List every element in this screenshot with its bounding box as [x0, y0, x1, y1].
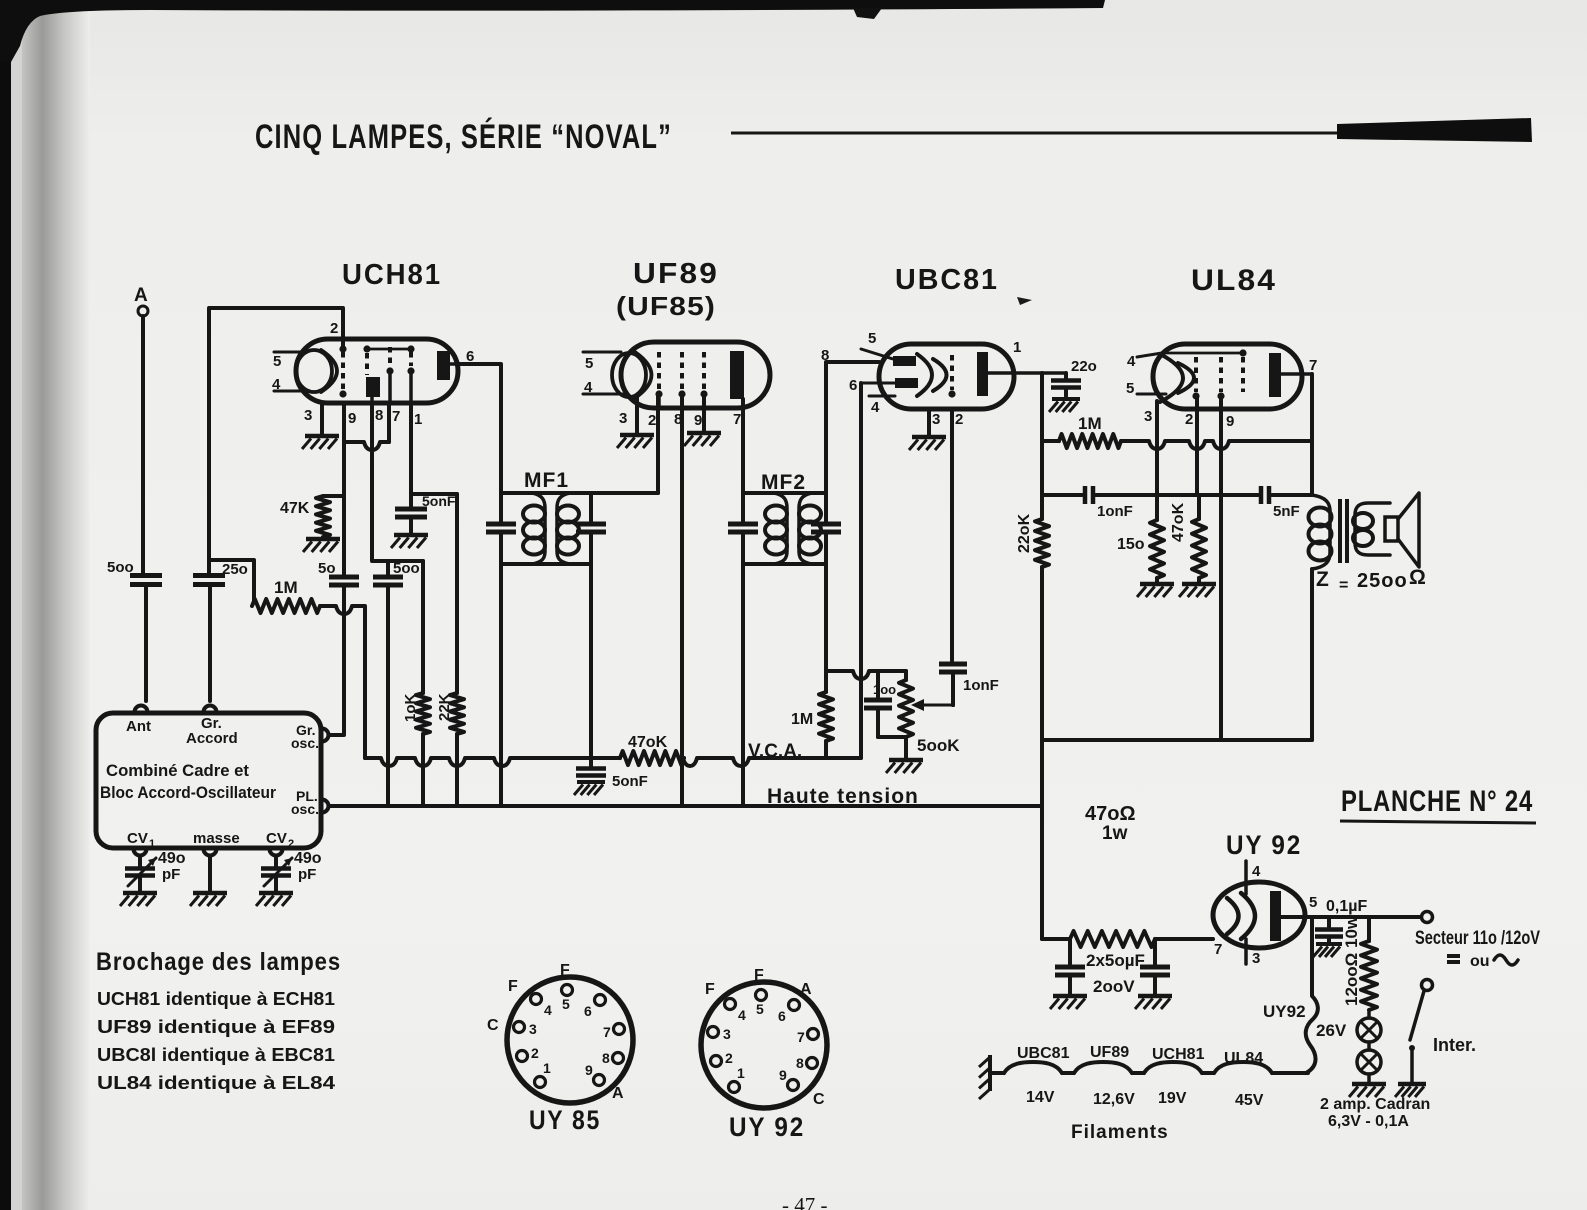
- svg-text:47K: 47K: [280, 500, 310, 517]
- svg-text:5: 5: [273, 353, 281, 370]
- wire Gr.Accord up to 250 cap: [208, 585, 212, 701]
- svg-text:3: 3: [619, 410, 627, 427]
- UBC81 pin8 label: [821, 347, 829, 364]
- MF2 primary coil: [765, 493, 787, 564]
- UY92 pin5 output wire to terminal: [1281, 894, 1421, 917]
- svg-text:5ooK: 5ooK: [917, 736, 960, 755]
- svg-text:5onF: 5onF: [422, 493, 456, 509]
- UL84 pin3 cathode wire: [1155, 401, 1159, 495]
- capacitor 22o: [1051, 358, 1097, 396]
- UCH81 g2-g4 link: [367, 348, 411, 351]
- potentiometer 500K: [899, 671, 960, 758]
- UCH81 pin7 stub: [387, 403, 391, 442]
- tube UCH81 envelope: [296, 339, 458, 403]
- svg-text:pF: pF: [298, 866, 316, 883]
- svg-text:Bloc Accord-Oscillateur: Bloc Accord-Oscillateur: [100, 783, 276, 802]
- capacitor 2x50uF #1: [1055, 939, 1085, 994]
- svg-text:9: 9: [1226, 413, 1234, 430]
- svg-text:7: 7: [797, 1029, 805, 1045]
- resistor 150 (cathode bias): [1117, 495, 1164, 582]
- node A antenna terminal: [134, 285, 148, 316]
- UY92 cathode arcs: [1227, 893, 1255, 939]
- UBC81 anode feed vertical with 22oK: [1016, 373, 1049, 939]
- ground 500K: [886, 760, 923, 773]
- svg-text:3: 3: [932, 411, 940, 428]
- B+ line to output stage: [1042, 738, 1312, 742]
- ground 150: [1137, 584, 1174, 597]
- svg-text:UY 92: UY 92: [729, 1112, 805, 1142]
- resistor 470K (grid leak): [1170, 495, 1206, 582]
- label 2x50uF 200V: [1086, 951, 1145, 996]
- svg-text:4: 4: [738, 1007, 746, 1023]
- ground UF89 g3: [684, 433, 721, 446]
- svg-text:5: 5: [1309, 894, 1317, 911]
- svg-text:UL84: UL84: [1224, 1050, 1263, 1067]
- svg-text:22o: 22o: [1071, 358, 1097, 375]
- svg-text:Accord: Accord: [186, 730, 238, 747]
- svg-text:1: 1: [543, 1060, 551, 1076]
- svg-text:PLANCHE N° 24: PLANCHE N° 24: [1341, 785, 1533, 818]
- svg-text:Brochage des lampes: Brochage des lampes: [96, 948, 341, 976]
- MF2 top wire: [743, 491, 826, 495]
- svg-text:26V: 26V: [1316, 1021, 1347, 1040]
- svg-text:pF: pF: [162, 866, 180, 883]
- svg-text:1oK: 1oK: [402, 693, 419, 722]
- UF89 grid g2 dashed: [678, 352, 685, 398]
- ground 470K: [1179, 584, 1216, 597]
- wire MF2 secondary bottom to detector node: [824, 564, 828, 692]
- svg-text:(UF85): (UF85): [616, 291, 716, 321]
- title CINQ LAMPES, SERIE NOVAL: [255, 118, 672, 156]
- svg-text:2ooV: 2ooV: [1093, 977, 1135, 996]
- svg-text:3: 3: [1144, 408, 1152, 425]
- svg-text:MF2: MF2: [761, 471, 806, 494]
- wire 250-top T to 1M left: [209, 560, 254, 601]
- capacitor 2x50uF #2: [1140, 939, 1170, 994]
- svg-text:9: 9: [779, 1067, 787, 1083]
- svg-text:Haute tension: Haute tension: [767, 785, 919, 808]
- block Combine Cadre et Bloc Accord-Oscillateur: [96, 713, 321, 850]
- UCH81 pin 5 heater stub: [273, 352, 303, 370]
- svg-text:1M: 1M: [1078, 414, 1102, 433]
- UBC81 diode plate 1: [861, 330, 916, 366]
- svg-text:C: C: [487, 1017, 499, 1034]
- svg-text:UCH81: UCH81: [342, 259, 442, 291]
- UF89 grid g3 dashed: [700, 352, 707, 398]
- svg-text:9: 9: [348, 410, 356, 427]
- capacitor 250: [193, 561, 248, 585]
- svg-text:7: 7: [1214, 941, 1222, 958]
- UF89 anode plate: [730, 351, 744, 399]
- wire MF1 secondary bottom to AVC bus: [589, 564, 593, 758]
- MF1 secondary coil: [557, 493, 579, 564]
- svg-text:UCH81: UCH81: [1152, 1046, 1205, 1063]
- UF89 grid g1 dashed: [655, 352, 662, 398]
- UBC81 pin3 wire: [927, 409, 931, 435]
- UCH81 heptode anode plate: [437, 351, 458, 380]
- ground 50nF screen: [391, 535, 428, 548]
- tube UBC81 label: [895, 264, 999, 296]
- svg-text:UCH81 identique à ECH81: UCH81 identique à ECH81: [97, 989, 335, 1009]
- svg-text:CV: CV: [266, 830, 287, 847]
- wire 1M right, hop over pin9 line, down to grid bus: [320, 606, 365, 758]
- UY92 anode plate: [1270, 891, 1281, 941]
- terminal Gr.Accord: [204, 706, 217, 712]
- filament chain wires: [990, 1062, 1308, 1073]
- svg-text:1: 1: [737, 1065, 745, 1081]
- switch Inter lever: [1409, 991, 1424, 1082]
- ground CV2: [256, 893, 293, 906]
- UCH81 pin3 wire to ground: [320, 403, 324, 434]
- svg-text:F: F: [560, 962, 570, 979]
- ground dial lamps: [1349, 1074, 1386, 1097]
- svg-text:3: 3: [304, 407, 312, 424]
- svg-text:47oK: 47oK: [1170, 502, 1187, 542]
- potentiometer wiper arrow: [911, 699, 953, 711]
- svg-text:2: 2: [330, 320, 338, 337]
- tube UL84 label: [1191, 264, 1277, 297]
- Haute tension bus: [329, 804, 1042, 808]
- UY92 pin3 stub: [1246, 939, 1260, 967]
- wire MF1 primary bottom to HT bus: [499, 564, 503, 806]
- svg-text:5o: 5o: [318, 560, 336, 577]
- heading Brochage des lampes: [96, 948, 341, 976]
- svg-text:C: C: [813, 1091, 825, 1108]
- ground 47K: [303, 539, 340, 552]
- dial lamp 2: [1357, 1042, 1381, 1074]
- wire 5o cap top to UCH81 pin 9: [342, 403, 346, 576]
- svg-text:Secteur 11o /12oV: Secteur 11o /12oV: [1415, 928, 1540, 949]
- UL84 pin9 screen wire down to B+ line: [1219, 398, 1223, 740]
- resistor 470K (AVC): [620, 734, 684, 765]
- equivalence line 4: [97, 1073, 335, 1093]
- label Inter: [1433, 1035, 1476, 1055]
- terminal secteur: [1422, 912, 1433, 923]
- svg-text:2x5oµF: 2x5oµF: [1086, 951, 1145, 970]
- UL84 grid g1 dashed: [1192, 357, 1199, 400]
- UCH81 pin 4 heater stub: [272, 376, 306, 393]
- UCH81 pin6 wire to MF1: [458, 364, 501, 493]
- socket UY85: [487, 962, 633, 1103]
- svg-text:Ant: Ant: [126, 718, 151, 735]
- transformer MF1 label: [524, 469, 569, 492]
- filament voltages: [1026, 1089, 1264, 1109]
- UL84 pin5 stub: [1126, 380, 1166, 397]
- AVC grid bus with hops: [365, 758, 620, 766]
- svg-text:49o: 49o: [158, 850, 186, 867]
- UL84 pin4 stub and internal link: [1127, 349, 1247, 370]
- svg-text:47oK: 47oK: [628, 734, 668, 751]
- resistor 1M (osc grid leak): [252, 578, 320, 613]
- wire A down to 500pF: [141, 316, 145, 573]
- V.C.A. label: [748, 741, 802, 762]
- svg-text:5: 5: [562, 996, 570, 1012]
- svg-text:22oK: 22oK: [1016, 513, 1033, 553]
- svg-text:2: 2: [725, 1050, 733, 1066]
- tube UCH81 label: [342, 259, 442, 291]
- svg-text:Combiné Cadre et: Combiné Cadre et: [106, 761, 249, 780]
- ground Inter: [1395, 1084, 1426, 1097]
- UL84 anode plate: [1269, 353, 1317, 397]
- AVC bus right segment with hops: [683, 758, 861, 766]
- switch Inter terminal: [1422, 980, 1433, 991]
- svg-text:2: 2: [955, 411, 963, 428]
- label 2 amp cadran: [1320, 1096, 1430, 1130]
- svg-text:UBC81: UBC81: [895, 264, 999, 296]
- terminal CV2: [270, 849, 283, 856]
- svg-text:1M: 1M: [791, 711, 813, 728]
- capacitor 0,1uF: [1315, 898, 1367, 942]
- svg-text:6: 6: [849, 377, 857, 394]
- wire MF2 primary bottom to HT bus (hops AVC bus): [741, 564, 745, 806]
- UL84 anode wire down: [1310, 374, 1314, 495]
- feedback wire to UL84 anode (hops pins 3 2 9): [1121, 441, 1312, 449]
- speaker: [1385, 493, 1419, 567]
- svg-text:UF89: UF89: [1090, 1044, 1129, 1061]
- MF2 primary tuning capacitor: [728, 493, 758, 564]
- svg-text:1: 1: [414, 411, 422, 428]
- MF1 primary tuning capacitor: [486, 493, 516, 564]
- socket UY92: [701, 967, 827, 1108]
- svg-text:UL84: UL84: [1191, 264, 1277, 297]
- svg-text:6: 6: [584, 1003, 592, 1019]
- svg-text:1M: 1M: [274, 578, 298, 597]
- capacitor 100 (detector): [864, 671, 906, 737]
- svg-text:masse: masse: [193, 830, 240, 847]
- svg-text:7: 7: [1309, 357, 1317, 374]
- svg-text:25oo: 25oo: [1357, 570, 1408, 592]
- UL84 pin labels: [1144, 408, 1234, 430]
- svg-text:5onF: 5onF: [612, 773, 648, 790]
- svg-text:49o: 49o: [294, 850, 322, 867]
- svg-text:F: F: [705, 981, 715, 998]
- ground filter cap 1: [1050, 996, 1087, 1009]
- ground 0,1uF: [1313, 944, 1342, 957]
- svg-text:3: 3: [723, 1026, 731, 1042]
- transformer MF2 label: [761, 471, 806, 494]
- svg-text:Inter.: Inter.: [1433, 1035, 1476, 1055]
- svg-text:5oo: 5oo: [393, 560, 420, 577]
- terminal CV1: [134, 849, 147, 856]
- UY92 pin4 stub: [1246, 861, 1261, 894]
- wire 500 bottom to HT bus: [386, 587, 390, 806]
- label UY92 26V: [1263, 1002, 1347, 1040]
- svg-text:5nF: 5nF: [1273, 503, 1300, 520]
- svg-text:12ooΩ 10w: 12ooΩ 10w: [1342, 915, 1361, 1006]
- svg-text:UBC8l identique à EBC81: UBC8l identique à EBC81: [97, 1045, 335, 1065]
- MF1 primary coil: [523, 493, 545, 564]
- tube UY92 envelope: [1213, 882, 1305, 948]
- svg-text:1: 1: [1013, 339, 1021, 356]
- page number 47: [782, 1193, 828, 1210]
- MF2 secondary tuning capacitor: [811, 493, 841, 564]
- terminal Ant: [135, 706, 148, 712]
- svg-text:UY92: UY92: [1263, 1002, 1306, 1021]
- UBC81 cathode arcs: [917, 354, 947, 396]
- svg-text:3: 3: [1252, 950, 1260, 967]
- ground CV1: [120, 893, 157, 906]
- svg-text:4: 4: [871, 399, 880, 416]
- UF89 pin8 screen wire down to HT bus: [680, 395, 684, 806]
- svg-text:A: A: [800, 981, 812, 998]
- svg-text:2: 2: [648, 412, 656, 429]
- top page edge black strip: [0, 0, 1105, 62]
- terminal PL.osc: [322, 800, 329, 813]
- UF89 pin7 anode wire to MF2: [741, 399, 745, 493]
- Haute tension label: [767, 785, 919, 808]
- svg-text:1onF: 1onF: [963, 677, 999, 694]
- ground masse: [190, 893, 227, 906]
- book gutter left edge: [0, 0, 90, 1210]
- svg-text:UY 85: UY 85: [529, 1105, 601, 1135]
- svg-text:4: 4: [544, 1002, 552, 1018]
- variable capacitor CV1 490pF: [125, 850, 186, 891]
- svg-text:1w: 1w: [1102, 823, 1128, 844]
- capacitor 5o: [318, 560, 359, 585]
- filament riser to UY92: [1306, 917, 1318, 1073]
- svg-text:F: F: [508, 978, 518, 995]
- equivalence line 1: [97, 989, 335, 1009]
- resistor 1M (feedback): [1042, 414, 1121, 448]
- svg-text:19V: 19V: [1158, 1090, 1187, 1107]
- MF1 top wire: [501, 491, 658, 495]
- resistor 47K: [280, 496, 344, 537]
- svg-text:A: A: [134, 285, 148, 306]
- resistor 1M (detector to AVC): [791, 692, 833, 758]
- transformer OUT core: [1340, 499, 1347, 563]
- UCH81 pin1 wire to screen node: [411, 403, 457, 494]
- svg-text:V.C.A.: V.C.A.: [748, 741, 802, 762]
- UL84 cathode arcs: [1160, 354, 1194, 402]
- svg-text:osc.: osc.: [291, 735, 319, 751]
- UCH81 grid g2 dashed column: [363, 345, 370, 375]
- capacitor 50nF (AVC): [576, 758, 648, 790]
- label Z = 2500 ohm: [1316, 566, 1426, 594]
- UF89 pin9 wire to ground: [702, 395, 706, 431]
- UBC81 diode plate 2: [849, 377, 918, 394]
- svg-text:=: =: [1339, 577, 1348, 594]
- wire detector node horizontal (hops UBC81 pin6 wire): [826, 671, 906, 679]
- wire pin9-pin7 tie (hops pin8): [344, 442, 389, 450]
- wire MF1 secondary top to UF89 grid: [656, 395, 660, 493]
- svg-text:1: 1: [149, 838, 155, 850]
- UL84 grid g3 dashed: [1241, 357, 1245, 392]
- svg-text:4: 4: [1127, 353, 1136, 370]
- capacitor 10nF (detector): [939, 409, 999, 705]
- svg-text:22K: 22K: [436, 693, 453, 721]
- dial lamp 1: [1357, 1010, 1381, 1042]
- filament labels: [1017, 1044, 1263, 1067]
- svg-text:7: 7: [733, 411, 741, 428]
- UL84 grid g2 dashed: [1217, 357, 1224, 400]
- wire Gr.osc terminal to 5o cap bottom: [329, 587, 344, 735]
- UF89 pin4 heater stub: [583, 379, 625, 396]
- svg-text:8: 8: [375, 407, 383, 424]
- MF2 secondary coil: [799, 493, 821, 564]
- UL84 pin2 grid wire: [1195, 398, 1199, 495]
- title rule: [731, 132, 1337, 135]
- UCH81 cathode: [296, 350, 337, 392]
- svg-text:6,3V - 0,1A: 6,3V - 0,1A: [1328, 1113, 1409, 1130]
- svg-text:8: 8: [821, 347, 829, 364]
- svg-text:0,1µF: 0,1µF: [1326, 898, 1367, 915]
- resistor 22K: [436, 494, 464, 806]
- MF1 secondary tuning capacitor: [576, 493, 606, 564]
- UF89 pin2 stub into tube: [657, 394, 661, 408]
- UBC81 grid dashed: [948, 355, 955, 398]
- ground UCH81 cathode: [302, 436, 339, 449]
- svg-text:MF1: MF1: [524, 469, 569, 492]
- svg-text:8: 8: [602, 1050, 610, 1066]
- ground filament chain: [979, 1055, 990, 1099]
- UBC81 anode plate: [977, 339, 1066, 396]
- svg-text:1oo: 1oo: [873, 682, 896, 697]
- svg-text:UBC81: UBC81: [1017, 1045, 1070, 1062]
- svg-text:2 amp. Cadran: 2 amp. Cadran: [1320, 1096, 1430, 1113]
- PLANCHE No 24: [1340, 785, 1536, 823]
- svg-text:UY 92: UY 92: [1226, 830, 1302, 860]
- tube UBC81 envelope: [879, 344, 1014, 409]
- UCH81 grid g1 dashed (pin2/pin9 column): [339, 345, 346, 397]
- ground UF89 cathode: [617, 435, 654, 448]
- label Filaments: [1071, 1122, 1169, 1143]
- svg-text:4: 4: [1252, 863, 1261, 880]
- ink mark artifact: [1017, 297, 1032, 305]
- svg-text:5oo: 5oo: [107, 559, 134, 576]
- wire grid loop: 250 top up and over to UCH81 pin2: [209, 308, 343, 575]
- svg-text:6: 6: [778, 1008, 786, 1024]
- equivalence line 2: [97, 1017, 335, 1037]
- svg-text:ou: ou: [1470, 953, 1490, 970]
- tube UF89 envelope: [621, 342, 770, 408]
- equivalence line 3: [97, 1045, 335, 1065]
- svg-text:CV: CV: [127, 830, 148, 847]
- svg-text:CINQ LAMPES, SÉRIE “NOVAL”: CINQ LAMPES, SÉRIE “NOVAL”: [255, 118, 672, 156]
- wire transformer primary bottom: [1310, 569, 1314, 740]
- capacitor 50nF (screen bypass): [395, 493, 456, 533]
- UBC81 pin labels 3 2: [932, 411, 963, 428]
- svg-text:12,6V: 12,6V: [1093, 1091, 1135, 1108]
- svg-text:- 47 -: - 47 -: [782, 1193, 828, 1210]
- svg-text:45V: 45V: [1235, 1092, 1264, 1109]
- variable capacitor CV2 490pF: [261, 850, 322, 891]
- capacitor 500 (osc): [373, 560, 420, 585]
- svg-text:UF89 identique à EF89: UF89 identique à EF89: [97, 1017, 335, 1037]
- title end black bar: [1337, 118, 1532, 142]
- transformer OUT primary: [1309, 495, 1332, 569]
- UCH81 pin number labels: [304, 320, 474, 428]
- svg-text:14V: 14V: [1026, 1089, 1055, 1106]
- svg-text:5: 5: [756, 1001, 764, 1017]
- ground filter cap 2: [1135, 996, 1172, 1009]
- UBC81 pin6 wire down to AVC bus end: [859, 383, 863, 758]
- svg-text:2: 2: [288, 838, 294, 850]
- terminal Gr.osc: [322, 729, 329, 742]
- UCH81 pin8 wire down, right to 10K: [372, 403, 423, 561]
- wire masse to ground: [208, 856, 212, 891]
- svg-text:7: 7: [603, 1024, 611, 1040]
- UCH81 triode anode plate: [366, 377, 380, 403]
- svg-text:15o: 15o: [1117, 536, 1145, 553]
- resistor 1200ohm 10W: [1342, 915, 1377, 1010]
- svg-text:Z: Z: [1316, 568, 1329, 591]
- UCH81 grid g3 dashed column: [386, 347, 393, 403]
- svg-text:Filaments: Filaments: [1071, 1122, 1169, 1143]
- svg-text:UL84 identique à EL84: UL84 identique à EL84: [97, 1073, 335, 1093]
- svg-text:4: 4: [584, 379, 593, 396]
- svg-text:F: F: [754, 967, 764, 984]
- svg-text:osc.: osc.: [291, 801, 319, 817]
